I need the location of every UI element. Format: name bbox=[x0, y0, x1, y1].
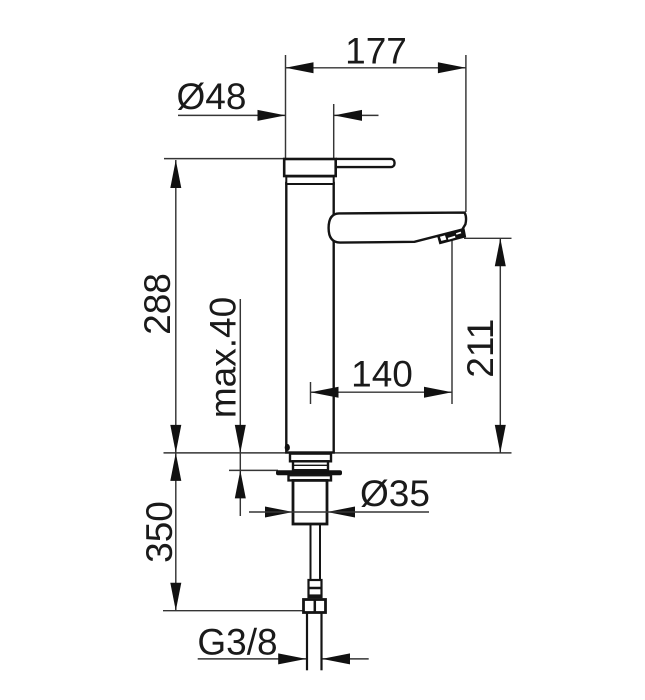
extension line countertop bbox=[164, 452, 512, 454]
arrowhead Ø48 right bbox=[334, 110, 362, 121]
supply pipe right wall bbox=[319, 524, 321, 580]
hose left wall bbox=[306, 613, 308, 671]
dimension line G3/8 left segment bbox=[198, 658, 307, 660]
extension line left of 177 / Ø48 bbox=[285, 55, 287, 160]
hose collar bbox=[309, 580, 322, 597]
dimension line Ø48 left segment bbox=[178, 114, 286, 116]
cartridge ring bbox=[286, 177, 333, 185]
svg-text:177: 177 bbox=[345, 30, 407, 71]
extension line faucet top bbox=[164, 158, 285, 160]
hose collar band lower bbox=[308, 594, 322, 597]
spout bbox=[329, 213, 466, 243]
faucet body bbox=[286, 183, 333, 453]
supply pipe left wall bbox=[310, 524, 312, 580]
extension line aerator vertical bbox=[451, 240, 453, 405]
threaded shank bbox=[293, 480, 327, 524]
arrowhead 140 right bbox=[424, 387, 452, 398]
arrowhead 350 top bbox=[170, 453, 181, 481]
mounting step lower bbox=[293, 461, 328, 470]
rubber washer bbox=[276, 470, 342, 475]
hose collar band upper bbox=[308, 587, 322, 590]
dimension line 288 and 350 vertical bbox=[175, 160, 177, 611]
arrowhead 140 left bbox=[311, 387, 339, 398]
arrowhead 350 bottom bbox=[170, 583, 181, 611]
dimension line G3/8 right segment bbox=[322, 658, 369, 660]
dimension line 211 vertical bbox=[499, 238, 501, 453]
step divider line bbox=[293, 464, 328, 466]
arrowhead G3/8 right bbox=[322, 653, 350, 664]
lever handle bbox=[333, 159, 395, 167]
arrowhead 211 bottom bbox=[495, 425, 506, 453]
svg-text:G3/8: G3/8 bbox=[197, 621, 277, 662]
aerator bbox=[437, 228, 466, 244]
dimension line Ø48 right segment bbox=[334, 114, 379, 116]
extension line aerator horizontal bbox=[464, 237, 512, 239]
body base weld detail bbox=[285, 444, 290, 451]
arrowhead 177 left bbox=[286, 62, 314, 73]
dimension line Ø35 bbox=[249, 511, 429, 513]
svg-text:288: 288 bbox=[137, 273, 178, 335]
svg-text:350: 350 bbox=[139, 501, 180, 563]
handle cap bbox=[284, 159, 336, 176]
arrowhead 288 top bbox=[170, 160, 181, 188]
extension line right of Ø48 bbox=[333, 104, 335, 161]
extension line hose end bbox=[163, 610, 304, 612]
arrowhead 288 bottom bbox=[170, 425, 181, 453]
svg-text:Ø35: Ø35 bbox=[360, 473, 430, 514]
svg-text:211: 211 bbox=[460, 319, 501, 378]
svg-text:Ø48: Ø48 bbox=[177, 76, 247, 117]
extension line right of 177 (spout tip) bbox=[465, 55, 467, 212]
dimension line 140 bbox=[311, 391, 453, 393]
arrowhead max.40 bottom bbox=[235, 470, 246, 498]
svg-text:140: 140 bbox=[351, 353, 413, 394]
flange nut bbox=[289, 475, 332, 480]
hose right wall bbox=[320, 613, 322, 671]
svg-text:max.40: max.40 bbox=[203, 297, 244, 418]
mounting step upper bbox=[290, 454, 331, 462]
arrowhead max.40 top bbox=[235, 425, 246, 453]
arrowhead 211 top bbox=[495, 238, 506, 266]
dimension line max.40 vertical bbox=[239, 299, 241, 516]
hex nut bbox=[304, 600, 326, 613]
arrowhead 177 right bbox=[438, 62, 466, 73]
arrowhead Ø48 left bbox=[258, 110, 286, 121]
arrowhead Ø35 left bbox=[265, 507, 293, 518]
arrowhead Ø35 right bbox=[327, 507, 355, 518]
extension line washer top bbox=[229, 469, 278, 471]
hex nut facet line bbox=[314, 600, 317, 613]
dimension line 177 bbox=[286, 67, 466, 69]
arrowhead G3/8 left bbox=[278, 653, 306, 664]
extension line body centerline bbox=[310, 382, 312, 404]
